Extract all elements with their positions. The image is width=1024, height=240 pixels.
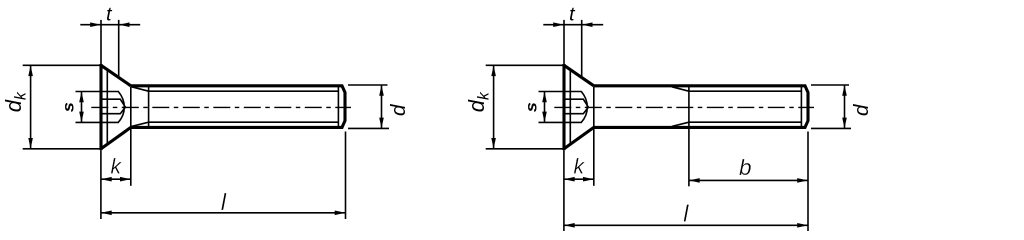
dimension k right screw — [564, 150, 594, 231]
dimension s right screw — [539, 92, 565, 123]
svg-text:k: k — [574, 156, 586, 179]
svg-text:dk: dk — [464, 91, 492, 112]
svg-text:k: k — [111, 156, 123, 179]
svg-text:l: l — [683, 201, 689, 227]
svg-text:l: l — [221, 189, 227, 215]
dimension k left screw — [101, 150, 131, 219]
thread runout right screw — [672, 87, 689, 127]
dimension l left screw — [101, 132, 346, 220]
head-shank junction line / k extension right screw — [593, 87, 595, 186]
head outline right screw — [564, 64, 594, 150]
dimension dk right screw — [486, 65, 563, 149]
svg-text:s: s — [60, 102, 77, 112]
svg-text:s: s — [523, 102, 540, 112]
arrowheads d left screw — [379, 85, 384, 128]
thread minor diameter lines right screw — [689, 91, 802, 122]
hex socket left screw — [101, 70, 125, 145]
arrowheads d right screw — [842, 85, 847, 128]
dimension s left screw — [76, 92, 102, 123]
shank outline left screw — [131, 86, 345, 128]
centerline left screw — [91, 106, 351, 108]
head outline left screw — [101, 64, 131, 150]
dimension d left screw — [348, 85, 389, 128]
svg-text:d: d — [387, 104, 410, 116]
arrowheads l left screw — [101, 211, 346, 216]
svg-text:b: b — [739, 155, 752, 180]
thread minor diameter lines left screw — [149, 91, 339, 122]
arrowheads b right screw — [689, 178, 808, 183]
head-shank junction line / k extension left screw — [130, 87, 132, 186]
svg-text:dk: dk — [1, 91, 29, 112]
arrowheads dk right screw — [491, 65, 496, 149]
arrowheads t right screw — [553, 22, 592, 27]
dimension d right screw — [811, 85, 851, 128]
centerline right screw — [554, 106, 814, 108]
arrowheads k left screw — [101, 177, 131, 182]
thread end line left screw — [337, 87, 339, 127]
dimension dk left screw — [23, 65, 100, 149]
arrowheads dk left screw — [28, 65, 33, 149]
full thread line / b extension right screw — [688, 87, 690, 187]
arrowheads s right screw — [542, 92, 547, 123]
dimension l right screw — [564, 132, 808, 232]
svg-text:d: d — [850, 104, 873, 116]
arrowheads t left screw — [90, 22, 129, 27]
shank outline right screw — [594, 86, 808, 128]
dimension b right screw — [689, 179, 808, 181]
arrowheads k right screw — [564, 177, 594, 182]
thread end line right screw — [800, 87, 802, 127]
dimension t right screw — [543, 20, 603, 77]
hex socket right screw — [564, 70, 588, 145]
svg-text:t: t — [106, 3, 113, 25]
full thread line left screw — [148, 87, 150, 127]
dimension t left screw — [80, 20, 140, 77]
thread runout left screw — [132, 87, 149, 127]
arrowheads s left screw — [79, 92, 84, 123]
arrowheads l right screw — [564, 223, 808, 228]
svg-text:t: t — [569, 3, 576, 25]
